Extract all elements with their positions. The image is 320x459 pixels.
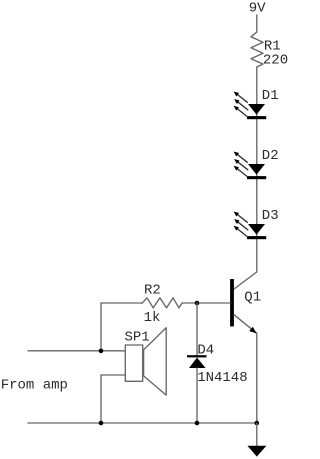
svg-text:Q1: Q1 <box>244 289 261 305</box>
LED D2 <box>234 152 267 180</box>
svg-text:D2: D2 <box>262 148 279 164</box>
resistor R2 left lead <box>101 302 142 304</box>
junction bottom D4 <box>195 421 200 426</box>
svg-text:220: 220 <box>263 52 288 68</box>
svg-text:SP1: SP1 <box>125 329 150 345</box>
wire base node down to D4 <box>196 303 198 356</box>
junction top rail <box>99 349 104 354</box>
svg-text:D4: D4 <box>197 343 214 359</box>
wire R1 to Q1 collector (through LEDs) <box>256 67 258 272</box>
wire to ground <box>256 423 258 446</box>
label D3 <box>262 208 279 224</box>
svg-text:D1: D1 <box>262 88 279 104</box>
svg-text:From amp: From amp <box>1 377 68 393</box>
label Q1 <box>244 289 261 305</box>
speaker SP1 body <box>125 345 142 381</box>
transistor Q1 collector lead <box>234 272 257 289</box>
transistor Q1 emitter lead <box>234 315 257 334</box>
ground <box>247 446 266 457</box>
label SP1 <box>125 329 150 345</box>
label R1 <box>264 39 281 55</box>
label 1k <box>144 310 161 326</box>
diode D4 <box>189 358 206 369</box>
junction bottom speaker <box>99 421 104 426</box>
wire R2 left down to speaker top rail <box>100 303 102 352</box>
resistor R1 <box>251 32 263 67</box>
wire speaker bottom down <box>100 375 102 423</box>
label From amp <box>1 377 68 393</box>
LED D1 <box>234 92 267 120</box>
diode D4 cathode bar <box>187 355 207 357</box>
wire emitter to bottom rail <box>256 333 258 423</box>
label D1 <box>262 88 279 104</box>
svg-text:R2: R2 <box>144 283 161 299</box>
junction base node <box>195 301 200 306</box>
svg-text:1k: 1k <box>144 310 161 326</box>
label 1N4148 <box>197 370 247 386</box>
svg-text:1N4148: 1N4148 <box>197 370 247 386</box>
label R2 <box>144 283 161 299</box>
junction bottom emitter <box>254 421 259 426</box>
node 9V label <box>249 1 266 17</box>
label D2 <box>262 148 279 164</box>
wire D4 to bottom rail <box>196 368 198 423</box>
wire from amp top <box>28 350 125 352</box>
resistor R2 <box>142 298 182 308</box>
LED D3 <box>234 212 267 240</box>
speaker bottom lead <box>101 374 125 376</box>
speaker SP1 horn <box>144 328 167 395</box>
svg-text:9V: 9V <box>249 1 266 17</box>
wire R2 to base <box>197 302 230 304</box>
wire 9V to R1 <box>256 15 258 32</box>
svg-text:D3: D3 <box>262 208 279 224</box>
resistor R2 right lead <box>182 302 197 304</box>
wire bottom rail <box>28 422 257 424</box>
label D4 <box>197 343 214 359</box>
transistor Q1 emitter arrow <box>249 327 256 334</box>
transistor Q1 base bar <box>230 279 234 326</box>
label 220 <box>263 52 288 68</box>
